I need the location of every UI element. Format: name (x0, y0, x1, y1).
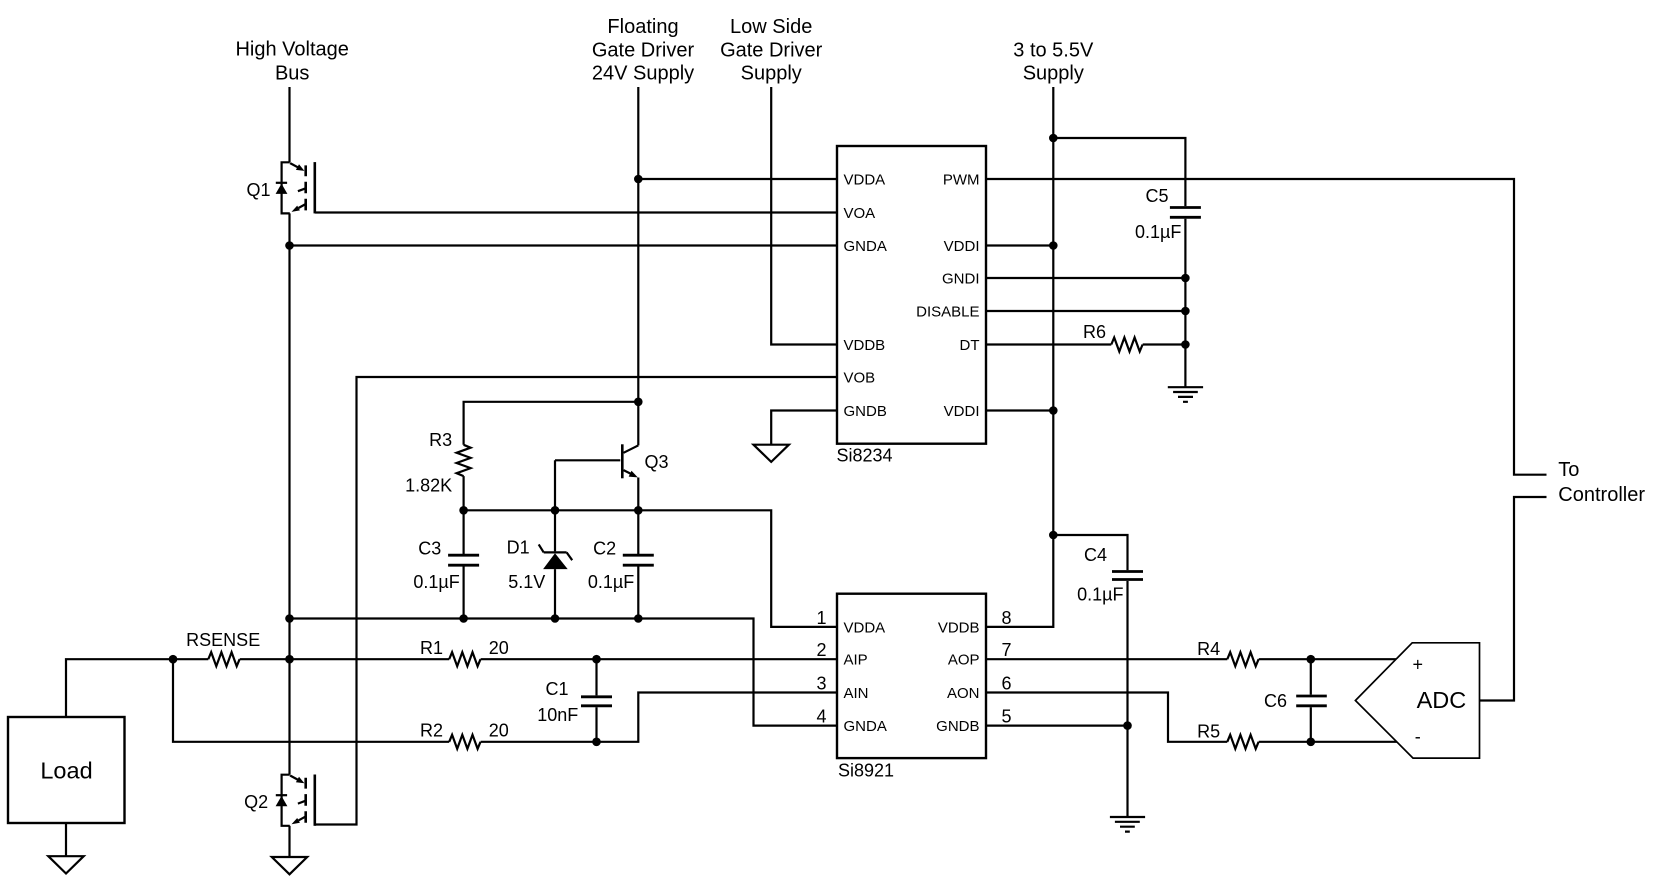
resistor R4 (1227, 652, 1258, 666)
wire R3 top branch (464, 402, 639, 445)
ground (earth) C4 column (1110, 817, 1145, 832)
svg-text:Si8234: Si8234 (837, 445, 893, 465)
svg-text:Gate Driver: Gate Driver (592, 40, 695, 62)
svg-text:Q1: Q1 (246, 180, 270, 200)
resistor R3 (457, 445, 471, 476)
svg-text:5: 5 (1002, 707, 1012, 727)
svg-text:C5: C5 (1145, 186, 1168, 206)
node junction dot supply C5 tee (1049, 134, 1058, 143)
node junction dot C1 top (592, 655, 601, 664)
svg-text:Controller: Controller (1558, 484, 1645, 506)
svg-text:0.1µF: 0.1µF (1135, 222, 1181, 242)
wire Si8234 GNDI pin to C5 column (986, 277, 1185, 279)
svg-text:GNDI: GNDI (942, 270, 980, 287)
svg-text:R4: R4 (1197, 639, 1220, 659)
wire base node row R3/D1/Q3 emitter to Si8921 VDDA pin 1 (464, 510, 837, 627)
svg-text:20: 20 (489, 721, 509, 741)
node junction dot Q3 emitter C2 (634, 506, 643, 515)
node junction dot load RSENSE R2 tee (169, 655, 178, 664)
wire GNDA net from Q1 source to Si8234 GNDA pin (290, 244, 838, 246)
wire R5 to ADC minus input (1259, 741, 1397, 743)
node junction dot GNDI at C5 column (1181, 274, 1190, 283)
wire C4 branch from supply rail (1053, 535, 1127, 570)
node junction dot C6 bottom R5 (1307, 738, 1316, 747)
node junction dot DT R6 at C5 column (1181, 340, 1190, 349)
svg-text:Low Side: Low Side (730, 16, 812, 38)
wire Si8921 AON pin 6 jog down to R5 (986, 693, 1227, 742)
svg-text:1.82K: 1.82K (405, 476, 452, 496)
svg-text:24V Supply: 24V Supply (592, 63, 694, 85)
node junction dot C4 supply tee (1049, 531, 1058, 540)
wire Si8234 VDDI pin to supply rail (986, 244, 1053, 246)
capacitor C1 (581, 697, 612, 706)
svg-text:Bus: Bus (275, 62, 309, 84)
IC U2 Si8921 box (837, 594, 986, 758)
ground (triangle) below Load (48, 856, 83, 873)
node junction dot D1 anode (551, 614, 560, 623)
node junction dot DISABLE at C5 column (1181, 307, 1190, 316)
wire Load to RSENSE node (66, 659, 208, 717)
wire C2 column (637, 510, 639, 618)
ground (triangle) below Q2 (272, 857, 307, 874)
wire Q2 source to ground (288, 826, 290, 857)
wire C3 column (463, 510, 465, 618)
svg-text:Si8921: Si8921 (838, 761, 894, 781)
node junction dot C6 top R4 (1307, 655, 1316, 664)
svg-text:+: + (1413, 655, 1424, 675)
node junction dot R3 bottom C3 (459, 506, 468, 515)
svg-text:10nF: 10nF (537, 705, 578, 725)
wire floating ground row to Si8921 GNDA pin 4 (290, 619, 838, 726)
wire Load bottom to ground (65, 823, 67, 856)
svg-text:Gate Driver: Gate Driver (720, 40, 823, 62)
svg-text:0.1µF: 0.1µF (588, 572, 634, 592)
wire Si8921 GNDB pin 5 to C4 ground column (986, 724, 1128, 726)
svg-text:VDDA: VDDA (844, 619, 886, 636)
wire C5 branch from supply rail (1053, 138, 1185, 206)
svg-text:6: 6 (1002, 674, 1012, 694)
svg-text:GNDB: GNDB (844, 403, 887, 420)
transistor Q2 (276, 775, 315, 826)
node junction dot VDDI lower (1049, 406, 1058, 415)
svg-text:C2: C2 (593, 539, 616, 559)
wire Q1 gate to Si8234 VOA pin (315, 211, 837, 213)
svg-text:RSENSE: RSENSE (186, 630, 260, 650)
resistor R6 (1111, 338, 1142, 352)
wire R2 to Si8921 AIN pin 3 (481, 693, 837, 742)
svg-text:Load: Load (40, 758, 92, 784)
zener diode D1 (539, 544, 573, 569)
wire Q3 emitter lead (637, 478, 639, 511)
wire RSENSE to HV bus node (240, 658, 290, 660)
svg-text:4: 4 (816, 707, 826, 727)
wire C6 stubs (1310, 659, 1312, 742)
svg-text:R6: R6 (1083, 322, 1106, 342)
svg-text:VDDA: VDDA (844, 171, 886, 188)
resistor R1 (449, 652, 480, 666)
node junction dot Q1 source GNDA (285, 241, 294, 250)
svg-text:AOP: AOP (948, 652, 980, 669)
svg-text:3 to 5.5V: 3 to 5.5V (1013, 40, 1094, 62)
svg-text:R1: R1 (420, 638, 443, 658)
svg-text:Floating: Floating (607, 16, 678, 38)
wire Q1 source down to Q2 drain (288, 213, 290, 774)
wire high voltage bus vertical to Q1 drain (288, 87, 290, 162)
node junction dot floating ground at HV bus (285, 614, 294, 623)
wire Si8921 AOP pin 7 to R4 (986, 658, 1227, 660)
wire Si8234 GNDB pin to ground (771, 411, 837, 445)
wire Si8234 lower VDDI pin to supply rail (986, 409, 1053, 411)
node junction dot R3 top Q3 collector (634, 398, 643, 407)
svg-text:R3: R3 (429, 430, 452, 450)
svg-text:AIN: AIN (844, 685, 869, 702)
transistor Q1 (276, 162, 315, 213)
svg-text:AON: AON (947, 685, 980, 702)
wire Si8234 DISABLE pin to C5 column (986, 310, 1185, 312)
svg-text:8: 8 (1002, 608, 1012, 628)
svg-text:R5: R5 (1197, 722, 1220, 742)
svg-text:VOA: VOA (844, 205, 876, 222)
wire Si8234 VOB pin to Q2 gate (315, 377, 837, 825)
svg-text:0.1µF: 0.1µF (1077, 585, 1123, 605)
ground (triangle) Si8234 GNDB (754, 445, 789, 462)
node High Voltage Bus label (235, 38, 348, 84)
svg-text:VDDI: VDDI (944, 403, 980, 420)
svg-text:VDDB: VDDB (938, 619, 980, 636)
svg-text:ADC: ADC (1417, 687, 1467, 713)
svg-text:7: 7 (1002, 640, 1012, 660)
node Low Side Gate Driver Supply label (720, 16, 823, 85)
ADC block (1355, 643, 1479, 758)
wire Q3 base to D1 cathode column (555, 459, 620, 461)
capacitor C2 (623, 555, 654, 565)
node junction dot HV bus RSENSE R1 (285, 655, 294, 664)
wire C5 bottom through GNDI DISABLE DT junctions to ground (1184, 219, 1186, 387)
node To Controller label (1558, 459, 1645, 506)
capacitor C4 (1112, 572, 1143, 580)
IC U1 Si8234 box (837, 146, 986, 444)
svg-text:VDDI: VDDI (944, 238, 980, 255)
node junction dot C3 bottom (459, 614, 468, 623)
svg-text:GNDB: GNDB (936, 718, 979, 735)
wire R3 bottom to base node (463, 476, 465, 510)
wire Si8234 DT pin to R6 (986, 343, 1111, 345)
wire low side gate driver supply to Si8234 VDDB pin (771, 87, 837, 345)
wire sense node to R1 (290, 658, 450, 660)
svg-text:PWM: PWM (943, 171, 980, 188)
svg-text:C4: C4 (1084, 545, 1107, 565)
svg-text:3: 3 (816, 674, 826, 694)
svg-text:D1: D1 (507, 538, 530, 558)
wire C1 stubs (595, 659, 597, 742)
wire floating 24V supply rail down to Q3 collector (637, 87, 639, 445)
svg-text:0.1µF: 0.1µF (413, 572, 459, 592)
wire Si8234 PWM pin to controller connector (986, 179, 1547, 475)
wire R4 to ADC plus input (1259, 658, 1396, 660)
transistor Q3 (622, 444, 638, 478)
svg-text:High Voltage: High Voltage (235, 38, 348, 60)
resistor R5 (1227, 735, 1258, 749)
node junction dot GNDB C4 column (1123, 721, 1132, 730)
wire R6 to C5 column (1143, 343, 1186, 345)
node Floating Gate Driver 24V Supply label (592, 16, 695, 85)
svg-text:20: 20 (489, 638, 509, 658)
wire Si8234 VDDA pin to floating supply rail (638, 178, 837, 180)
svg-text:1: 1 (816, 608, 826, 628)
capacitor C3 (448, 555, 479, 565)
svg-text:-: - (1415, 727, 1421, 747)
capacitor C6 (1296, 696, 1327, 706)
svg-text:Q3: Q3 (645, 452, 669, 472)
wire ADC output to controller connector (1480, 497, 1547, 701)
svg-text:2: 2 (816, 640, 826, 660)
svg-text:AIP: AIP (844, 652, 868, 669)
capacitor C5 (1170, 208, 1201, 218)
svg-text:R2: R2 (420, 721, 443, 741)
svg-text:DISABLE: DISABLE (916, 303, 979, 320)
svg-text:GNDA: GNDA (844, 238, 887, 255)
svg-text:C1: C1 (545, 679, 568, 699)
svg-text:To: To (1558, 459, 1579, 481)
wire R2 branch down from RSENSE left node (173, 659, 449, 742)
svg-text:VOB: VOB (844, 369, 876, 386)
node junction dot C2 bottom (634, 614, 643, 623)
wire R1 to Si8921 AIP pin 2 (481, 658, 837, 660)
svg-text:Supply: Supply (741, 63, 802, 85)
svg-text:C3: C3 (418, 539, 441, 559)
node junction dot VDDI upper (1049, 241, 1058, 250)
wire C4 bottom to GNDB junction and earth ground (1126, 581, 1128, 817)
node 3 to 5.5V Supply label (1013, 40, 1094, 85)
wire D1 cathode up / anode down column (554, 460, 556, 618)
svg-text:DT: DT (960, 337, 980, 354)
resistor R2 (449, 735, 480, 749)
svg-text:Q2: Q2 (244, 792, 268, 812)
svg-text:GNDA: GNDA (844, 718, 887, 735)
wire 3 to 5.5V supply rail down to Si8921 VDDB pin 8 (986, 87, 1053, 627)
svg-text:Supply: Supply (1023, 63, 1084, 85)
node junction dot D1 base line (551, 506, 560, 515)
Load block (8, 717, 125, 823)
svg-text:C6: C6 (1264, 691, 1287, 711)
resistor RSENSE (208, 652, 239, 666)
node junction dot C1 bottom (592, 738, 601, 747)
ground (earth) C5 R6 column (1168, 387, 1203, 402)
svg-text:VDDB: VDDB (844, 337, 886, 354)
node junction dot VDDA floating supply (634, 175, 643, 184)
svg-text:5.1V: 5.1V (508, 572, 545, 592)
